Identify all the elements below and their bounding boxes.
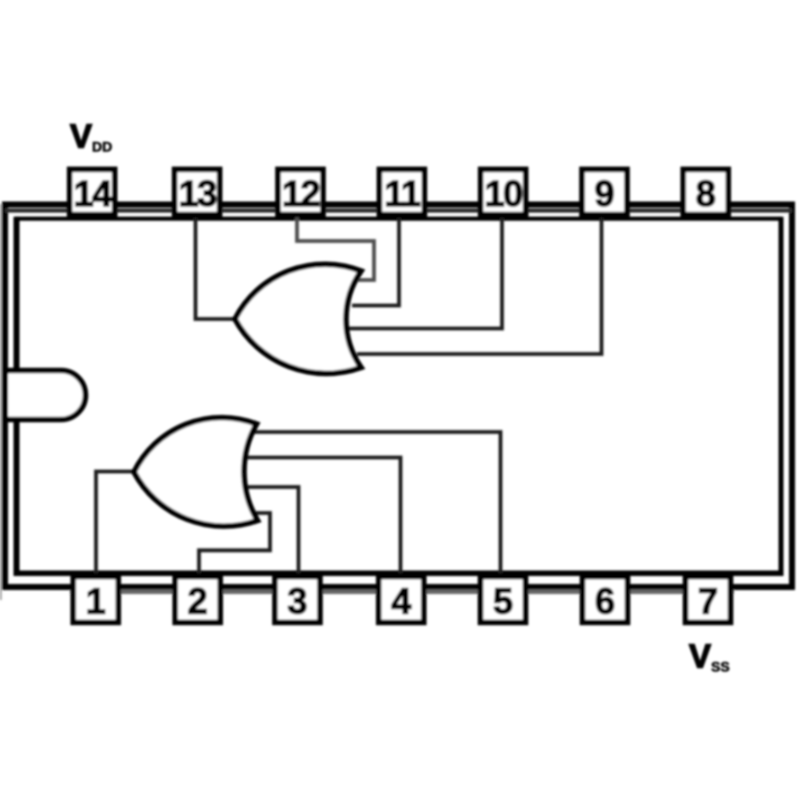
pin 12 bbox=[278, 169, 323, 214]
or-gate U2 (output pin 13, inputs pins 9-12) bbox=[235, 264, 361, 373]
wire pin9 to gate U2 input bbox=[357, 215, 602, 354]
pin 4 bbox=[379, 577, 424, 623]
ic package inner outline bottom bbox=[15, 571, 781, 577]
package notch bbox=[9, 371, 86, 420]
pin 7 bbox=[686, 577, 731, 623]
wire pin10 to gate U2 input bbox=[349, 215, 502, 329]
wire pin5 to gate U1 input bbox=[254, 432, 501, 576]
svg-text:2: 2 bbox=[188, 581, 208, 622]
scan edge artifact left bbox=[0, 204, 2, 600]
pin 14 bbox=[70, 169, 115, 214]
or-gate U1 (output pin 1, inputs pins 2-5) bbox=[134, 418, 258, 527]
svg-text:8: 8 bbox=[696, 173, 716, 214]
wire pin1 to gate U1 output bbox=[96, 472, 140, 577]
svg-text:11: 11 bbox=[384, 173, 421, 214]
ic package inner outline left bbox=[14, 217, 20, 576]
top pin-lead bar bbox=[5, 208, 792, 212]
pin 2 bbox=[175, 577, 220, 623]
svg-text:14: 14 bbox=[74, 173, 113, 214]
pin 10 bbox=[481, 169, 526, 214]
svg-text:13: 13 bbox=[179, 173, 217, 214]
wire pin13 to gate U2 output bbox=[196, 215, 241, 319]
ic package outer outline bbox=[5, 205, 792, 588]
svg-text:4: 4 bbox=[391, 581, 411, 622]
svg-text:5: 5 bbox=[493, 581, 513, 622]
pin 13 bbox=[175, 169, 220, 214]
wire pin11 to gate U2 input bbox=[352, 215, 399, 306]
ic package inner outline top bbox=[15, 217, 781, 221]
svg-text:VSS: VSS bbox=[689, 638, 730, 675]
pin 3 bbox=[275, 577, 320, 623]
svg-text:3: 3 bbox=[287, 581, 307, 622]
pin 8 bbox=[683, 169, 728, 214]
svg-text:6: 6 bbox=[595, 581, 615, 622]
pin 1 bbox=[73, 577, 118, 623]
svg-text:12: 12 bbox=[282, 173, 320, 214]
wire pin3 to gate U1 input bbox=[248, 487, 299, 576]
ic package inner outline right bbox=[779, 217, 784, 576]
wire pin2 to gate U1 input bbox=[199, 513, 270, 576]
svg-text:1: 1 bbox=[86, 581, 106, 622]
wire pin4 to gate U1 input bbox=[246, 458, 401, 577]
pin 9 bbox=[582, 169, 627, 214]
svg-text:7: 7 bbox=[698, 581, 718, 622]
svg-text:10: 10 bbox=[485, 173, 523, 214]
svg-text:VDD: VDD bbox=[70, 118, 112, 155]
svg-text:9: 9 bbox=[594, 173, 614, 214]
pin 5 bbox=[481, 577, 526, 623]
bottom pin-lead bar bbox=[70, 590, 734, 595]
pin 11 bbox=[379, 169, 424, 214]
pin 6 bbox=[583, 577, 628, 623]
wire pin12 to gate U2 input bbox=[297, 215, 374, 280]
